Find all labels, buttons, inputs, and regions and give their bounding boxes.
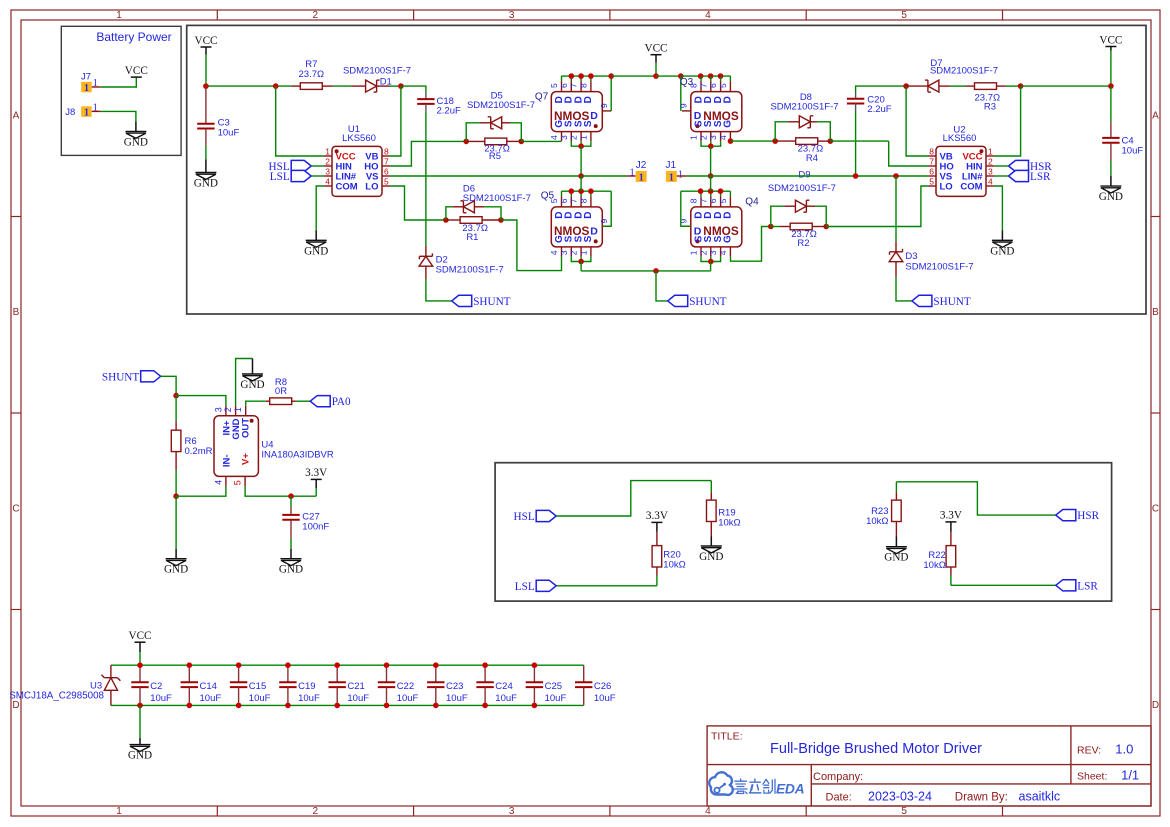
value 100nF (C27): [302, 521, 329, 532]
junction bank bottom: [236, 703, 242, 709]
value 10uF (C22): [397, 693, 419, 704]
svg-text:D: D: [12, 700, 19, 711]
label C19: [298, 681, 315, 692]
svg-text:J8: J8: [65, 107, 75, 118]
value 23.7Ω (R2): [791, 229, 817, 240]
label D5: [491, 90, 503, 101]
svg-text:C23: C23: [446, 681, 463, 692]
svg-text:1: 1: [579, 250, 589, 255]
svg-text:C22: C22: [397, 681, 414, 692]
wire C3 to GND: [205, 145, 207, 159]
junction C27/V+: [288, 493, 294, 499]
svg-text:3: 3: [988, 166, 993, 176]
wire J7 to VCC: [101, 77, 137, 87]
ground (U2 COM): [990, 240, 1014, 257]
svg-text:4: 4: [988, 176, 993, 186]
svg-text:2: 2: [325, 156, 330, 166]
resistor R23: [892, 482, 902, 537]
junction VCC/C4: [1108, 83, 1114, 89]
svg-text:7: 7: [698, 83, 708, 88]
value 23.7Ω (R3): [975, 92, 1001, 103]
svg-text:D: D: [694, 110, 702, 122]
svg-text:1.0: 1.0: [1115, 742, 1133, 757]
wire R3 to rail: [1006, 85, 1021, 87]
net port LSR (U2): [1009, 170, 1052, 183]
resistor R19: [707, 481, 717, 537]
svg-text:1: 1: [988, 146, 993, 156]
svg-text:C2: C2: [150, 681, 162, 692]
label Company:: [813, 771, 863, 783]
junction bank top: [285, 662, 291, 668]
svg-text:D: D: [723, 211, 734, 218]
junction R2 left: [768, 224, 774, 230]
value 10kΩ (R23): [866, 516, 888, 527]
svg-text:REV:: REV:: [1077, 745, 1101, 757]
wire VB riser U2: [906, 86, 928, 156]
svg-text:5: 5: [901, 806, 907, 817]
main H-bridge box: [187, 25, 1146, 314]
svg-text:3.3V: 3.3V: [305, 467, 327, 479]
label R22: [928, 550, 945, 561]
wire source bus: [581, 270, 711, 272]
svg-text:G: G: [723, 235, 734, 243]
ground (C3): [194, 173, 218, 190]
svg-text:4: 4: [549, 135, 559, 140]
pin lead J1: [677, 175, 687, 177]
svg-text:OUT: OUT: [241, 418, 252, 438]
wire VS to J2: [581, 175, 626, 177]
value 23.7Ω (R1): [462, 223, 488, 234]
svg-text:2: 2: [313, 10, 319, 21]
svg-text:7: 7: [569, 83, 579, 88]
op-amp driver U2: [928, 146, 994, 196]
capacitor C14: [181, 665, 198, 705]
svg-text:Battery Power: Battery Power: [96, 30, 171, 44]
wire R8 to PA0: [296, 400, 311, 402]
svg-text:A: A: [13, 110, 20, 121]
svg-text:6: 6: [559, 198, 569, 203]
gnd stub: [175, 549, 177, 559]
svg-text:10kΩ: 10kΩ: [866, 516, 888, 527]
wire OUT to R8: [246, 401, 266, 406]
svg-text:COM: COM: [336, 182, 358, 193]
wire R6 to GND: [175, 496, 177, 549]
svg-text:6: 6: [708, 198, 718, 203]
diode D1: [351, 80, 389, 92]
svg-text:8: 8: [384, 146, 389, 156]
transistor Q3: [678, 76, 742, 149]
svg-text:COM: COM: [960, 182, 982, 193]
svg-text:C19: C19: [298, 681, 315, 692]
wire Q3 gate: [730, 140, 775, 142]
net port LSL (U1): [270, 170, 311, 183]
vcc stub: [139, 642, 141, 652]
svg-text:1: 1: [669, 173, 674, 184]
label Q5: [541, 191, 555, 202]
svg-text:TITLE:: TITLE:: [711, 731, 743, 743]
svg-text:R1: R1: [466, 232, 478, 243]
value INA180A3IDBVR (U4): [261, 450, 333, 461]
svg-text:1: 1: [84, 108, 89, 119]
svg-text:2: 2: [313, 806, 319, 817]
power flag 3.3V (right pull): [940, 510, 962, 522]
wire SHUNT in: [161, 376, 176, 395]
svg-text:8: 8: [579, 198, 589, 203]
junction R4 left: [772, 138, 778, 144]
svg-text:D: D: [723, 96, 734, 103]
value 10kΩ (R19): [718, 517, 740, 528]
value SDM2100S1F-7 (D6): [463, 193, 531, 204]
svg-text:3: 3: [509, 806, 515, 817]
svg-text:C14: C14: [200, 681, 217, 692]
svg-text:A: A: [1152, 110, 1159, 121]
label C3: [218, 118, 230, 129]
junction D7/VB: [903, 83, 909, 89]
wire Q5 source riser: [580, 262, 582, 271]
svg-text:GND: GND: [1099, 191, 1123, 203]
junction bank top: [433, 662, 439, 668]
junction R2 right: [823, 224, 829, 230]
wire VB riser: [390, 86, 401, 156]
svg-text:23.7Ω: 23.7Ω: [299, 69, 325, 80]
gnd stub: [1110, 176, 1112, 186]
tvs diode U3: [101, 665, 120, 705]
wire C4 to GND: [1110, 161, 1112, 176]
label R2: [797, 238, 809, 249]
value 10kΩ (R22): [923, 560, 945, 571]
svg-text:S: S: [583, 120, 594, 127]
value 10uF (C19): [298, 693, 320, 704]
ground (R19): [699, 546, 723, 563]
junction R5 right: [519, 139, 525, 145]
svg-text:Full-Bridge Brushed Motor Driv: Full-Bridge Brushed Motor Driver: [770, 741, 982, 757]
label R5: [489, 151, 501, 162]
gnd stub: [205, 160, 207, 173]
capacitor C21: [329, 665, 346, 705]
junction bank bottom: [285, 703, 291, 709]
svg-text:IN-: IN-: [221, 454, 232, 467]
svg-text:D: D: [1152, 700, 1159, 711]
svg-text:10kΩ: 10kΩ: [923, 560, 945, 571]
svg-text:10kΩ: 10kΩ: [663, 560, 685, 571]
label R20: [663, 550, 680, 561]
pad J2: [636, 171, 647, 184]
capacitor C25: [526, 665, 543, 705]
value 10uF (C24): [495, 693, 517, 704]
pin 1 of J2: [630, 168, 635, 179]
svg-text:10uF: 10uF: [545, 693, 567, 704]
svg-text:LO: LO: [940, 182, 953, 193]
value 23.7Ω (R5): [484, 143, 510, 154]
capacitor C22: [378, 665, 395, 705]
vcc stub: [950, 522, 952, 532]
svg-text:INA180A3IDBVR: INA180A3IDBVR: [261, 450, 333, 461]
junction bank bottom: [384, 703, 390, 709]
power flag VCC (battery): [125, 65, 148, 77]
label U3: [90, 680, 102, 691]
wire Q5 drain rail: [562, 190, 612, 192]
svg-text:Date:: Date:: [826, 792, 852, 804]
wire drain rail to VCC: [611, 75, 656, 77]
capacitor C20: [847, 93, 864, 112]
svg-text:SHUNT: SHUNT: [689, 296, 726, 308]
label Battery Power: [96, 30, 171, 44]
sheet value: [1121, 768, 1139, 783]
svg-text:1/1: 1/1: [1121, 768, 1139, 783]
svg-text:3: 3: [559, 135, 569, 140]
svg-text:SMCJ18A_C2985008: SMCJ18A_C2985008: [9, 690, 104, 701]
wire pin9 riser Q3: [680, 76, 682, 111]
value SDM2100S1F-7 (D3): [905, 261, 973, 272]
label D3: [905, 251, 917, 262]
wire R5 to Q7 gate: [521, 140, 561, 142]
value 10uF (C15): [249, 693, 271, 704]
svg-text:7: 7: [698, 198, 708, 203]
value 2.2uF (C20): [867, 104, 891, 115]
svg-text:R4: R4: [806, 153, 818, 164]
wire VCC bank down: [139, 652, 141, 665]
svg-text:J1: J1: [666, 160, 677, 171]
gnd stub: [290, 549, 292, 559]
svg-text:3: 3: [214, 407, 224, 412]
ground (C4): [1099, 186, 1123, 203]
svg-text:3: 3: [708, 250, 718, 255]
svg-text:2.2uF: 2.2uF: [437, 106, 461, 117]
diode D8: [775, 116, 830, 141]
wire COM to GND (U2): [994, 186, 1002, 231]
svg-text:5: 5: [233, 480, 243, 485]
svg-text:SDM2100S1F-7: SDM2100S1F-7: [436, 265, 504, 276]
vcc stub: [1110, 47, 1112, 51]
battery power box: [61, 26, 181, 155]
svg-text:Q7: Q7: [535, 92, 549, 103]
value 23.7Ω (R7): [299, 69, 325, 80]
svg-text:Q3: Q3: [680, 77, 694, 88]
label C2: [150, 681, 162, 692]
junction Q3 drain pin: [718, 73, 724, 79]
wire Q4 gate: [731, 227, 771, 262]
diode D6: [446, 201, 501, 220]
junction D3/VS: [893, 173, 899, 179]
label D1: [380, 76, 392, 87]
wire R4 to HO riser: [830, 140, 888, 142]
wire R2 to LO riser: [826, 186, 928, 227]
wire D7 to R3: [950, 85, 965, 87]
svg-text:LSL: LSL: [515, 581, 535, 593]
svg-text:LO: LO: [365, 182, 378, 193]
svg-text:2: 2: [988, 156, 993, 166]
junction Q7 drain pin: [578, 73, 584, 79]
label Drawn By:: [955, 792, 1008, 804]
svg-text:10kΩ: 10kΩ: [718, 517, 740, 528]
svg-text:3: 3: [325, 166, 330, 176]
svg-text:B: B: [1152, 307, 1159, 318]
svg-text:J2: J2: [636, 160, 647, 171]
svg-text:SDM2100S1F-7: SDM2100S1F-7: [768, 183, 836, 194]
label C26: [594, 681, 611, 692]
junction U1 VCC riser: [273, 83, 279, 89]
value 10uF (C25): [545, 693, 567, 704]
resistor R6: [171, 396, 181, 497]
svg-text:2: 2: [569, 135, 579, 140]
gnd stub: [135, 122, 137, 132]
svg-text:5: 5: [718, 83, 728, 88]
resistor R8: [266, 398, 296, 405]
label R19: [718, 507, 735, 518]
net port HSR (pull): [1056, 510, 1100, 523]
power flag VCC (bank): [128, 630, 151, 642]
pin lead J2: [626, 175, 635, 177]
power flag 3.3V (U4): [305, 467, 327, 479]
title block frame: [707, 726, 1151, 806]
junction Q3 drain pin: [698, 73, 704, 79]
svg-text:5: 5: [901, 10, 907, 21]
svg-text:LKS560: LKS560: [342, 133, 376, 144]
svg-text:4: 4: [705, 10, 711, 21]
wire Q4 source riser: [710, 262, 712, 271]
svg-text:V+: V+: [241, 453, 252, 465]
junction R4 right: [828, 138, 834, 144]
label C18: [437, 96, 454, 107]
diode D3: [889, 176, 912, 301]
svg-text:10uF: 10uF: [446, 693, 468, 704]
svg-text:C21: C21: [347, 681, 364, 692]
svg-text:5: 5: [718, 198, 728, 203]
svg-text:SDM2100S1F-7: SDM2100S1F-7: [463, 193, 531, 204]
junction R1 right: [498, 217, 504, 223]
svg-text:SHUNT: SHUNT: [473, 296, 510, 308]
resistor R22: [946, 532, 956, 585]
svg-text:7: 7: [569, 198, 579, 203]
svg-text:GND: GND: [884, 552, 908, 564]
svg-text:8: 8: [689, 198, 699, 203]
svg-text:Sheet:: Sheet:: [1077, 771, 1107, 783]
resistor R2: [771, 223, 826, 230]
value 23.7Ω (R4): [798, 144, 824, 155]
svg-text:Company:: Company:: [813, 771, 863, 783]
svg-text:1: 1: [630, 168, 635, 179]
svg-text:GND: GND: [990, 245, 1014, 257]
svg-text:J7: J7: [81, 71, 91, 82]
junction VS right: [708, 173, 714, 179]
svg-text:LSL: LSL: [270, 171, 290, 183]
net port PA0: [310, 396, 351, 409]
svg-text:9: 9: [678, 103, 688, 108]
svg-text:C26: C26: [594, 681, 611, 692]
wire bank top rail: [111, 664, 584, 666]
net port HSL (pull): [514, 510, 557, 523]
svg-text:GND: GND: [279, 564, 303, 576]
svg-text:D: D: [590, 110, 598, 122]
wire VS to Q4 drain: [710, 176, 712, 191]
junction bank bottom: [482, 703, 488, 709]
wire HIN to HSR: [994, 165, 1009, 167]
ground (U4 GND): [240, 374, 264, 391]
svg-text:5: 5: [929, 176, 934, 186]
vcc stub: [205, 47, 207, 55]
net port SHUNT (sense): [102, 371, 161, 384]
svg-text:D9: D9: [798, 169, 810, 180]
svg-text:2023-03-24: 2023-03-24: [868, 790, 932, 804]
value 0.2mR (R6): [185, 446, 213, 457]
svg-text:10uF: 10uF: [495, 693, 517, 704]
wire HSR node: [896, 482, 1055, 515]
junction VCC/C3: [203, 83, 209, 89]
svg-text:4: 4: [325, 176, 330, 186]
svg-text:S: S: [583, 235, 594, 242]
value 10kΩ (R20): [663, 560, 685, 571]
svg-text:10uF: 10uF: [150, 693, 172, 704]
wire Q4 drain rail: [681, 190, 731, 192]
junction Q3 drain pin: [708, 73, 714, 79]
resistor R3: [965, 83, 1006, 90]
wire LSL to LIN#: [311, 175, 324, 177]
value 10uF (C3): [218, 128, 240, 139]
svg-text:1: 1: [689, 250, 699, 255]
svg-text:VCC: VCC: [644, 43, 667, 55]
junction R6/IN+: [173, 393, 179, 399]
label R8: [275, 377, 287, 388]
wire VCC down: [205, 55, 207, 87]
svg-text:8: 8: [929, 146, 934, 156]
label C27: [302, 511, 319, 522]
transistor Q4: [678, 191, 742, 264]
label Q7: [535, 92, 549, 103]
pull-resistor box: [495, 463, 1112, 601]
junction VCC mid: [653, 73, 659, 79]
label J2: [636, 160, 647, 171]
wire pin9 riser Q7: [610, 76, 612, 111]
wire LO riser: [390, 186, 446, 220]
svg-text:3: 3: [509, 10, 515, 21]
junction Q5 drain pin: [588, 188, 594, 194]
label R6: [185, 436, 197, 447]
svg-text:10uF: 10uF: [594, 693, 616, 704]
svg-text:VCC: VCC: [128, 630, 151, 642]
ground (C27): [279, 559, 303, 576]
svg-text:SDM2100S1F-7: SDM2100S1F-7: [467, 100, 535, 111]
junction bank bottom: [334, 703, 340, 709]
junction bank bottom: [137, 703, 143, 709]
label Date:: [826, 792, 852, 804]
junction Q3 gate: [728, 138, 734, 144]
current sense amp U4: [214, 406, 259, 487]
power flag 3.3V (left pull): [646, 510, 668, 522]
svg-text:3: 3: [559, 250, 569, 255]
svg-text:1: 1: [84, 83, 89, 94]
junction Q5 drain pin: [569, 188, 575, 194]
resistor R5: [466, 138, 521, 145]
pin 1 of J7: [93, 78, 98, 89]
junction U2 VCC riser: [1018, 83, 1024, 89]
ground (battery): [124, 131, 148, 148]
svg-text:1: 1: [116, 806, 122, 817]
label U2: [953, 125, 965, 136]
value SDM2100S1F-7 (D2): [436, 265, 504, 276]
pin lead J8: [92, 110, 101, 112]
diode D2: [419, 176, 452, 301]
label R7: [305, 59, 317, 70]
wire rail to VCC right: [1021, 85, 1111, 87]
svg-text:C25: C25: [545, 681, 562, 692]
svg-text:1: 1: [689, 135, 699, 140]
value SDM2100S1F-7 (D7): [930, 66, 998, 77]
svg-text:4: 4: [718, 250, 728, 255]
svg-text:5: 5: [549, 83, 559, 88]
gnd stub: [315, 231, 317, 241]
wire to C18: [401, 86, 426, 92]
svg-text:6: 6: [559, 83, 569, 88]
